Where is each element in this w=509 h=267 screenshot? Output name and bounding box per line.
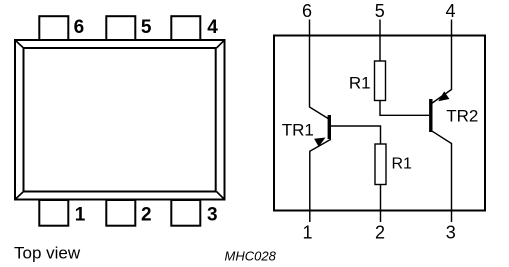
svg-text:2: 2: [141, 205, 152, 226]
svg-text:TR1: TR1: [282, 121, 314, 140]
svg-text:R1: R1: [392, 155, 413, 172]
svg-text:Top view: Top view: [14, 243, 81, 262]
svg-text:MHC028: MHC028: [225, 248, 277, 263]
svg-text:6: 6: [302, 1, 312, 21]
svg-text:3: 3: [207, 205, 218, 226]
svg-text:1: 1: [302, 222, 312, 242]
svg-text:5: 5: [141, 17, 152, 38]
svg-text:3: 3: [446, 222, 456, 242]
svg-text:TR2: TR2: [446, 106, 478, 125]
svg-text:2: 2: [375, 222, 385, 242]
svg-text:1: 1: [75, 205, 86, 226]
svg-text:4: 4: [445, 1, 455, 21]
svg-text:R1: R1: [349, 74, 371, 93]
svg-text:4: 4: [207, 17, 218, 38]
svg-text:5: 5: [375, 1, 385, 21]
svg-text:6: 6: [74, 17, 85, 38]
